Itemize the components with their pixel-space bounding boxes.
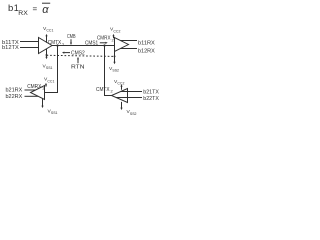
op-amp U3 CMRX1 receiver xyxy=(31,86,45,100)
node CMTX2 label xyxy=(96,87,113,94)
junction CMTX2-CMB xyxy=(103,44,105,46)
svg-text:b22RX: b22RX xyxy=(6,94,23,100)
svg-text:b: b xyxy=(8,3,13,14)
power VSS1 (U1) xyxy=(43,49,53,70)
signal arrow CMS2 xyxy=(62,51,85,57)
svg-text:α: α xyxy=(42,4,49,16)
signal arrow CMS1 xyxy=(85,41,108,47)
svg-text:CC2: CC2 xyxy=(113,29,120,33)
power VCC1 (U3) xyxy=(44,77,54,87)
svg-text:b22TX: b22TX xyxy=(143,96,159,102)
svg-text:b21TX: b21TX xyxy=(143,90,159,96)
wire RTN dashed return line xyxy=(47,55,115,56)
node CMB label with pointer xyxy=(67,34,76,45)
power VCC2 (U2) xyxy=(110,27,120,39)
svg-text:b12TX: b12TX xyxy=(2,45,19,51)
wire U4 input b21TX xyxy=(121,91,142,93)
wire U2 output b11RX xyxy=(121,40,138,42)
svg-text:CMB: CMB xyxy=(67,34,76,40)
svg-text:CMTX: CMTX xyxy=(96,87,110,93)
svg-text:b12RX: b12RX xyxy=(138,49,155,55)
power VSS1 (U3) xyxy=(41,99,57,116)
power VCC1 (U1) xyxy=(43,26,53,43)
svg-text:SS1: SS1 xyxy=(46,66,53,70)
svg-text:2: 2 xyxy=(111,89,113,94)
svg-text:b21RX: b21RX xyxy=(6,87,23,93)
node CMRX1 label xyxy=(27,84,44,91)
svg-text:CC1: CC1 xyxy=(46,29,53,33)
wire CMTX2 node down to U4 apex xyxy=(105,46,112,96)
svg-text:=: = xyxy=(33,5,38,14)
svg-text:RX: RX xyxy=(18,11,28,17)
power VCC2 (U4) xyxy=(114,79,124,90)
op-amp U2 CMRX2 receiver xyxy=(115,38,129,52)
power VSS2 (U2) xyxy=(109,52,119,73)
power VSS2 (U4) xyxy=(120,102,136,116)
svg-text:CMRX: CMRX xyxy=(97,36,111,42)
wire b11TX to U1 input xyxy=(20,41,39,43)
formula b1_RX = alpha-bar xyxy=(8,3,50,17)
wire U4 input b22TX xyxy=(116,97,142,99)
svg-text:SS2: SS2 xyxy=(130,112,137,116)
svg-text:CMRX: CMRX xyxy=(27,84,42,90)
wire b21RX from U3 xyxy=(25,89,37,91)
wire b12TX to U1 input xyxy=(20,47,39,49)
svg-text:SS2: SS2 xyxy=(112,69,119,73)
wire CMTX1 node down to U3 input xyxy=(45,46,58,93)
junction RTN-VSS2 xyxy=(114,55,116,57)
svg-text:b11RX: b11RX xyxy=(138,41,155,47)
op-amp U4 CMTX2 driver xyxy=(112,89,128,103)
node RTN label with pointer xyxy=(71,57,85,71)
op-amp U1 CMTX1 driver xyxy=(39,38,53,54)
wire CMB bus line xyxy=(52,45,115,47)
wire b22RX from U3 xyxy=(25,95,39,97)
node CMRX2 label xyxy=(97,36,114,43)
wire U2 output b12RX xyxy=(121,48,138,50)
svg-text:CC1: CC1 xyxy=(47,79,54,83)
svg-text:CC2: CC2 xyxy=(117,82,124,86)
svg-text:SS1: SS1 xyxy=(51,111,58,115)
node CMTX1 label xyxy=(48,40,65,47)
junction CMTX1-CMB xyxy=(56,44,58,46)
svg-text:RTN: RTN xyxy=(71,65,85,71)
